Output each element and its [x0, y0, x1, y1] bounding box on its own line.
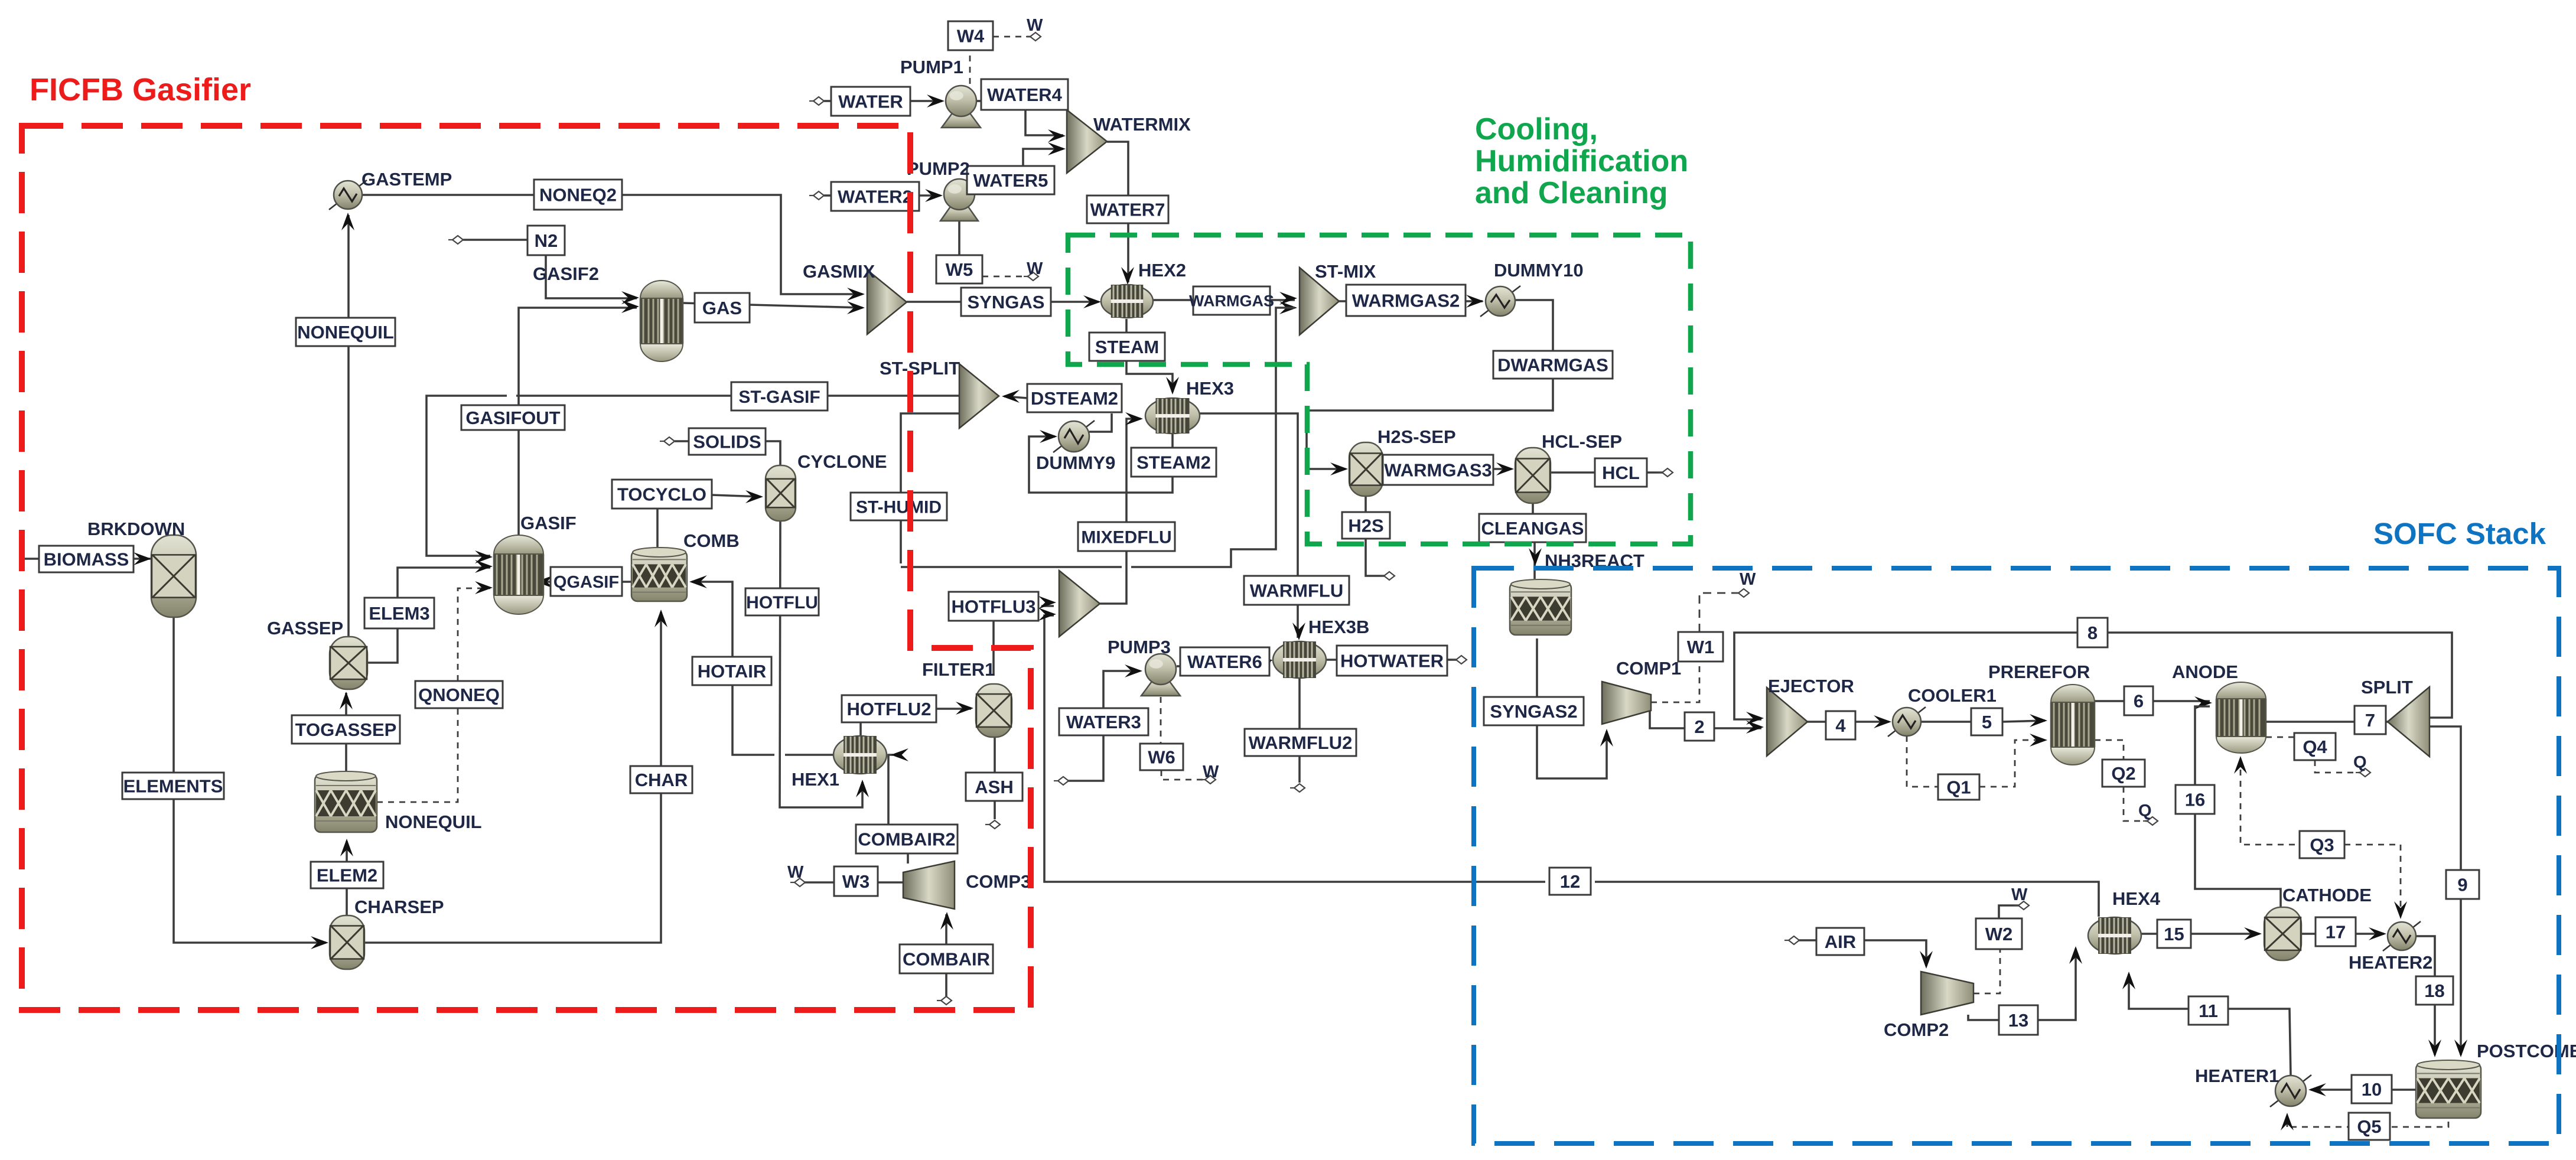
svg-text:Q5: Q5 [2357, 1116, 2381, 1137]
svg-text:Q: Q [2353, 753, 2367, 772]
svg-text:W6: W6 [1148, 747, 1175, 768]
svg-text:CHARSEP: CHARSEP [354, 897, 444, 917]
svg-text:SYNGAS2: SYNGAS2 [1490, 701, 1577, 722]
svg-text:TOGASSEP: TOGASSEP [295, 719, 397, 740]
svg-text:PUMP3: PUMP3 [1108, 637, 1171, 657]
svg-text:DUMMY10: DUMMY10 [1494, 260, 1584, 281]
svg-text:12: 12 [1560, 871, 1580, 892]
svg-text:SOLIDS: SOLIDS [693, 432, 761, 452]
svg-text:W1: W1 [1687, 637, 1715, 657]
svg-text:W4: W4 [957, 26, 985, 47]
svg-text:QGASIF: QGASIF [553, 573, 619, 592]
svg-text:ELEM3: ELEM3 [369, 603, 429, 624]
svg-text:WARMGAS2: WARMGAS2 [1352, 291, 1460, 311]
svg-text:HOTWATER: HOTWATER [1340, 651, 1444, 672]
svg-text:W: W [2011, 885, 2028, 904]
svg-text:ST-MIX: ST-MIX [1315, 261, 1376, 282]
svg-text:Q4: Q4 [2303, 737, 2327, 757]
svg-text:4: 4 [1835, 715, 1846, 736]
svg-text:HEX3: HEX3 [1186, 378, 1234, 399]
svg-text:18: 18 [2424, 980, 2444, 1001]
svg-text:WATER: WATER [838, 92, 903, 112]
svg-text:COMB: COMB [683, 530, 740, 551]
svg-text:HEX4: HEX4 [2112, 888, 2161, 909]
svg-text:HEX2: HEX2 [1138, 260, 1186, 281]
svg-text:SYNGAS: SYNGAS [968, 292, 1045, 312]
svg-text:PUMP2: PUMP2 [907, 158, 970, 179]
svg-text:FILTER1: FILTER1 [922, 659, 995, 680]
svg-text:Q2: Q2 [2111, 763, 2135, 784]
svg-text:Q1: Q1 [1946, 777, 1971, 798]
svg-text:SOFC Stack: SOFC Stack [2373, 517, 2546, 550]
svg-text:W: W [1203, 763, 1219, 781]
svg-text:WARMFLU2: WARMFLU2 [1249, 732, 1353, 753]
svg-text:and Cleaning: and Cleaning [1475, 176, 1668, 210]
svg-text:NONEQUIL: NONEQUIL [385, 812, 482, 832]
svg-text:CHAR: CHAR [635, 770, 688, 790]
svg-text:ELEM2: ELEM2 [317, 865, 377, 886]
svg-text:HCL-SEP: HCL-SEP [1542, 431, 1622, 452]
svg-text:Q3: Q3 [2310, 835, 2334, 855]
svg-text:ST-SPLIT: ST-SPLIT [880, 358, 960, 379]
svg-text:ELEMENTS: ELEMENTS [123, 776, 223, 797]
svg-text:DUMMY9: DUMMY9 [1036, 452, 1115, 473]
svg-text:COOLER1: COOLER1 [1908, 685, 1997, 706]
svg-text:GASIF: GASIF [520, 513, 577, 533]
svg-text:QNONEQ: QNONEQ [418, 685, 500, 705]
svg-text:NONEQUIL: NONEQUIL [297, 322, 394, 343]
svg-text:HOTAIR: HOTAIR [698, 661, 767, 682]
svg-text:WARMGAS: WARMGAS [1189, 292, 1274, 310]
svg-text:COMP2: COMP2 [1884, 1019, 1949, 1040]
svg-text:6: 6 [2134, 691, 2144, 712]
svg-text:W: W [1027, 259, 1043, 278]
svg-text:GASIFOUT: GASIFOUT [465, 408, 560, 428]
svg-text:W5: W5 [946, 259, 973, 280]
svg-text:N2: N2 [535, 230, 558, 251]
svg-text:STEAM: STEAM [1095, 337, 1160, 357]
svg-text:9: 9 [2457, 875, 2467, 895]
svg-text:COMP1: COMP1 [1616, 658, 1681, 679]
svg-text:FICFB Gasifier: FICFB Gasifier [30, 72, 251, 107]
svg-text:NONEQ2: NONEQ2 [539, 185, 617, 206]
svg-text:WATERMIX: WATERMIX [1093, 114, 1191, 135]
svg-text:GASSEP: GASSEP [267, 618, 343, 638]
svg-text:W: W [1027, 16, 1043, 35]
svg-text:HOTFLU: HOTFLU [746, 593, 818, 612]
svg-text:EJECTOR: EJECTOR [1768, 676, 1854, 696]
svg-text:16: 16 [2185, 790, 2205, 810]
svg-text:HOTFLU2: HOTFLU2 [847, 699, 932, 719]
svg-text:HEX3B: HEX3B [1308, 617, 1369, 637]
svg-text:17: 17 [2326, 922, 2346, 943]
svg-text:TOCYCLO: TOCYCLO [617, 484, 706, 505]
svg-text:CYCLONE: CYCLONE [797, 451, 887, 472]
svg-text:STEAM2: STEAM2 [1136, 452, 1211, 473]
svg-text:COMBAIR2: COMBAIR2 [858, 829, 955, 850]
svg-text:WATER3: WATER3 [1066, 712, 1141, 732]
svg-text:GAS: GAS [702, 298, 742, 318]
svg-text:PUMP1: PUMP1 [900, 57, 963, 77]
svg-text:ST-GASIF: ST-GASIF [738, 387, 820, 407]
svg-text:Q: Q [2138, 801, 2152, 820]
svg-text:DWARMGAS: DWARMGAS [1497, 355, 1608, 376]
svg-text:GASMIX: GASMIX [803, 261, 875, 282]
svg-text:W: W [787, 863, 804, 882]
svg-text:CLEANGAS: CLEANGAS [1481, 518, 1584, 539]
svg-text:8: 8 [2087, 623, 2098, 643]
svg-text:ST-HUMID: ST-HUMID [856, 497, 942, 517]
svg-text:HCL: HCL [1602, 462, 1640, 483]
svg-text:PREREFOR: PREREFOR [1988, 662, 2090, 682]
svg-text:WATER4: WATER4 [987, 84, 1063, 105]
svg-text:WATER7: WATER7 [1090, 200, 1165, 220]
svg-text:MIXEDFLU: MIXEDFLU [1081, 527, 1171, 547]
svg-text:ASH: ASH [975, 777, 1013, 797]
svg-text:7: 7 [2365, 710, 2375, 731]
svg-text:SPLIT: SPLIT [2361, 677, 2413, 698]
svg-text:HEX1: HEX1 [792, 769, 839, 790]
svg-text:WARMGAS3: WARMGAS3 [1384, 460, 1492, 481]
svg-text:WARMFLU: WARMFLU [1250, 581, 1343, 601]
svg-text:HOTFLU3: HOTFLU3 [952, 597, 1036, 617]
svg-text:BIOMASS: BIOMASS [44, 549, 129, 570]
svg-text:DSTEAM2: DSTEAM2 [1031, 388, 1118, 409]
svg-text:COMBAIR: COMBAIR [903, 949, 990, 970]
svg-text:BRKDOWN: BRKDOWN [87, 519, 185, 539]
svg-text:COMP3: COMP3 [966, 871, 1031, 892]
svg-text:15: 15 [2164, 924, 2184, 944]
svg-text:W3: W3 [842, 871, 870, 892]
svg-text:WATER5: WATER5 [973, 170, 1048, 191]
svg-text:W2: W2 [1985, 924, 2013, 944]
svg-text:13: 13 [2008, 1010, 2028, 1031]
svg-text:HEATER1: HEATER1 [2195, 1065, 2279, 1086]
svg-text:GASTEMP: GASTEMP [362, 169, 452, 190]
svg-text:10: 10 [2362, 1079, 2382, 1100]
svg-text:2: 2 [1694, 716, 1704, 737]
svg-text:H2S-SEP: H2S-SEP [1377, 426, 1456, 447]
svg-text:W: W [1740, 570, 1756, 589]
svg-text:Cooling,: Cooling, [1475, 112, 1598, 146]
svg-text:CATHODE: CATHODE [2282, 885, 2372, 905]
svg-text:11: 11 [2199, 1001, 2218, 1021]
svg-text:Humidification: Humidification [1475, 144, 1688, 178]
svg-text:HEATER2: HEATER2 [2349, 952, 2432, 973]
svg-text:AIR: AIR [1825, 931, 1856, 952]
svg-text:H2S: H2S [1348, 516, 1383, 536]
svg-text:WATER2: WATER2 [838, 187, 913, 207]
svg-text:WATER6: WATER6 [1187, 651, 1262, 672]
svg-text:5: 5 [1982, 712, 1992, 732]
svg-text:ANODE: ANODE [2172, 662, 2238, 682]
svg-text:GASIF2: GASIF2 [533, 263, 599, 284]
